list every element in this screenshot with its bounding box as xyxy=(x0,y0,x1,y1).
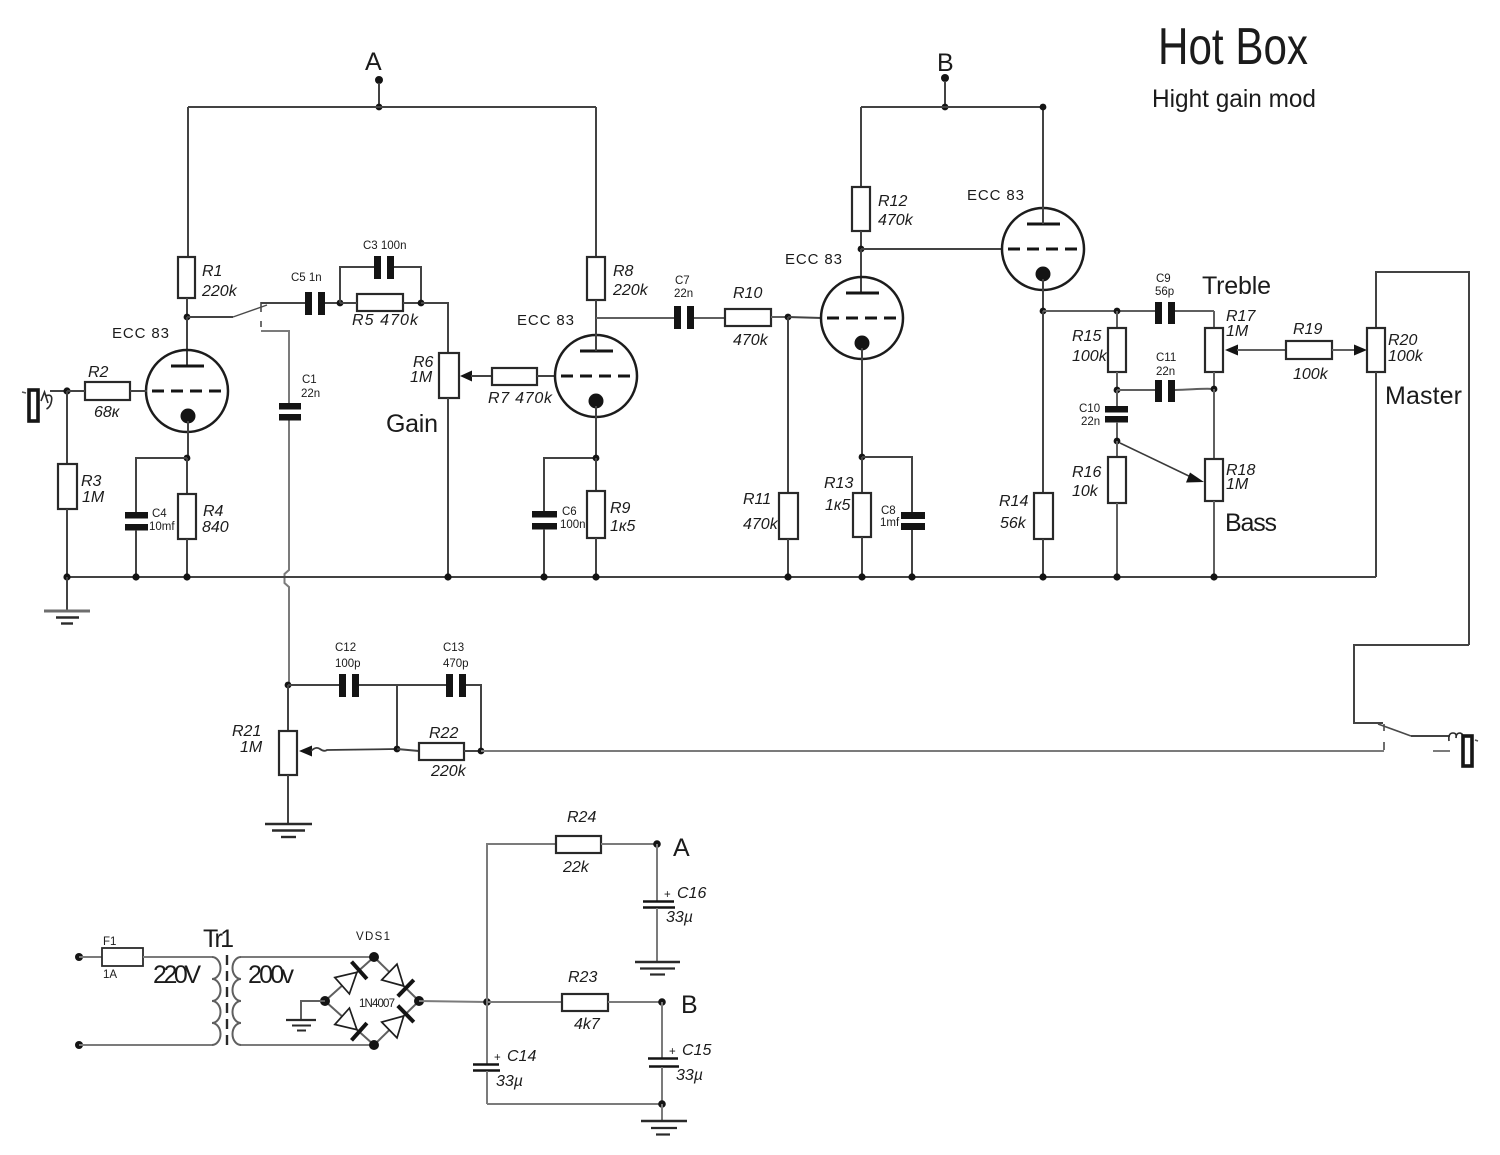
output switch contacts xyxy=(1383,724,1385,731)
switch S1 blade xyxy=(233,305,267,317)
resistor R13 xyxy=(824,457,871,577)
svg-text:F1: F1 xyxy=(103,936,116,948)
ground symbol (C16) xyxy=(635,962,680,975)
node R15 bottom / C11 xyxy=(1114,387,1121,394)
svg-text:220k: 220k xyxy=(612,282,649,299)
svg-text:100k: 100k xyxy=(1388,348,1424,365)
node supply ground xyxy=(658,1100,666,1108)
svg-text:R20: R20 xyxy=(1388,332,1417,349)
resistor R12 xyxy=(852,107,914,249)
svg-text:C8: C8 xyxy=(881,505,896,517)
capacitor C9 xyxy=(1155,273,1214,324)
svg-text:22n: 22n xyxy=(1081,416,1100,428)
output switch blade xyxy=(1378,724,1411,736)
svg-text:1M: 1M xyxy=(1226,476,1249,493)
svg-text:200v: 200v xyxy=(248,961,295,989)
svg-text:R5 470k: R5 470k xyxy=(352,312,419,329)
resistor R15 xyxy=(1072,311,1126,390)
node tube4 cathode xyxy=(1040,308,1047,315)
svg-text:68к: 68к xyxy=(94,404,121,421)
potentiometer R21 xyxy=(232,685,297,824)
svg-text:R19: R19 xyxy=(1293,321,1322,338)
svg-text:22n: 22n xyxy=(1156,366,1175,378)
svg-text:100p: 100p xyxy=(335,658,361,670)
wire lower contact to C1 xyxy=(261,331,289,403)
svg-text:C12: C12 xyxy=(335,642,356,654)
wire R12 to tube3 plate xyxy=(860,249,862,293)
svg-text:10k: 10k xyxy=(1072,483,1099,500)
svg-text:C14: C14 xyxy=(507,1048,536,1065)
svg-text:A: A xyxy=(365,48,382,76)
capacitor C14 xyxy=(473,1002,536,1104)
transformer core xyxy=(226,955,228,1047)
wire to gain pot xyxy=(421,303,448,353)
svg-text:C13: C13 xyxy=(443,642,464,654)
capacitor C3 xyxy=(340,240,421,303)
svg-text:B: B xyxy=(937,49,954,77)
tube U3 ECC 83 (third stage) xyxy=(785,251,903,457)
node supply raw xyxy=(483,998,491,1006)
svg-text:1A: 1A xyxy=(103,969,117,981)
svg-text:R9: R9 xyxy=(610,500,631,517)
svg-text:C7: C7 xyxy=(675,275,690,287)
diode D3 (L to B) xyxy=(335,1008,367,1040)
transformer Tr1 primary xyxy=(75,957,221,1049)
svg-text:C1: C1 xyxy=(302,374,317,386)
svg-text:Hot Box: Hot Box xyxy=(1158,18,1308,76)
svg-text:R1: R1 xyxy=(202,263,222,280)
resistor R11 xyxy=(743,317,798,577)
svg-text:C16: C16 xyxy=(677,885,706,902)
resistor R19 with wiper arrows xyxy=(1225,321,1367,383)
svg-text:10mf: 10mf xyxy=(149,521,175,533)
svg-text:1к5: 1к5 xyxy=(610,518,635,535)
ground symbol (bridge) xyxy=(286,1001,325,1031)
resistor R23 xyxy=(487,969,662,1033)
svg-text:1M: 1M xyxy=(410,369,433,386)
svg-text:56k: 56k xyxy=(1000,515,1027,532)
svg-text:33µ: 33µ xyxy=(676,1067,703,1084)
svg-text:R13: R13 xyxy=(824,475,853,492)
diode D2 (T to R) xyxy=(382,964,414,996)
node B (supply) xyxy=(658,991,697,1019)
node B (top) xyxy=(937,49,954,110)
svg-text:1mf: 1mf xyxy=(880,517,900,529)
wire junction to tube1 plate xyxy=(186,317,188,366)
svg-text:R11: R11 xyxy=(743,491,771,508)
wire C1 down with hop over bus xyxy=(285,421,290,686)
wire blade to jack tip xyxy=(1411,735,1450,737)
resistor R22 xyxy=(397,725,481,780)
node input xyxy=(63,387,70,394)
svg-text:22k: 22k xyxy=(562,859,590,876)
tube U2 ECC 83 (second stage) xyxy=(517,312,637,458)
svg-text:1M: 1M xyxy=(1226,323,1249,340)
svg-text:R15: R15 xyxy=(1072,328,1101,345)
svg-text:C5 1n: C5 1n xyxy=(291,272,322,284)
node R5/C3 right xyxy=(418,300,425,307)
resistor R9 xyxy=(587,458,635,577)
capacitor C5 xyxy=(261,272,340,315)
capacitor C6 xyxy=(532,458,596,577)
svg-text:R22: R22 xyxy=(429,725,458,742)
svg-text:Gain: Gain xyxy=(386,410,438,438)
node wiper/C12 tap xyxy=(394,746,401,753)
svg-text:220k: 220k xyxy=(430,763,467,780)
bus junction dots xyxy=(63,573,1217,580)
capacitor C7 xyxy=(596,275,725,329)
wire B+ to tube4 plate xyxy=(1042,107,1044,224)
wire A supply horizontal xyxy=(188,106,596,108)
wire C14 bottom to ground node xyxy=(487,1103,662,1105)
svg-text:R7 470k: R7 470k xyxy=(488,390,553,407)
svg-text:R2: R2 xyxy=(88,364,109,381)
R18 wiper arrow wire xyxy=(1120,443,1204,483)
ground symbol (supply) xyxy=(641,1104,687,1135)
node tube4 plate supply xyxy=(1040,104,1047,111)
svg-text:1M: 1M xyxy=(240,739,263,756)
resistor R24 xyxy=(556,809,657,876)
svg-text:R10: R10 xyxy=(733,285,762,302)
svg-text:+: + xyxy=(494,1052,501,1064)
capacitor C15 xyxy=(648,1002,711,1104)
node R10/grid3 xyxy=(785,314,792,321)
svg-text:220V: 220V xyxy=(153,961,201,989)
node C5/R5/C3 xyxy=(337,300,344,307)
ground symbol (main bus) xyxy=(44,577,90,624)
switch S1 upper contact xyxy=(260,302,262,312)
wire C12/C13 tap down xyxy=(396,685,398,749)
node C12 left xyxy=(285,682,292,689)
svg-text:22n: 22n xyxy=(301,388,320,400)
svg-text:R24: R24 xyxy=(567,809,596,826)
node tube3 cathode xyxy=(859,454,866,461)
input jack J1 xyxy=(22,390,67,421)
R6 wiper arrow xyxy=(460,371,472,382)
wire bridge to supply node xyxy=(419,1001,487,1002)
svg-text:ECC 83: ECC 83 xyxy=(967,187,1024,204)
capacitor C16 xyxy=(643,844,706,962)
svg-text:C6: C6 xyxy=(562,506,577,518)
tube U4 ECC 83 (cathode follower) xyxy=(967,187,1084,311)
switch S1 pole wire xyxy=(187,316,233,318)
wire B supply horizontal xyxy=(861,106,1043,108)
resistor R1 xyxy=(178,257,238,317)
svg-text:1N4007: 1N4007 xyxy=(359,998,395,1010)
svg-text:C4: C4 xyxy=(152,508,167,520)
potentiometer R20 (Master) xyxy=(1367,272,1469,645)
svg-text:4k7: 4k7 xyxy=(574,1016,601,1033)
svg-text:Treble: Treble xyxy=(1202,272,1271,300)
node C10 bottom xyxy=(1114,438,1121,445)
switch S1 lower contact xyxy=(260,321,262,327)
potentiometer R6 (Gain) xyxy=(410,353,459,577)
R21 wiper arrow and wire xyxy=(299,746,397,757)
resistor R3 xyxy=(58,391,105,577)
wire A down to R1 xyxy=(187,107,189,257)
svg-text:Master: Master xyxy=(1385,382,1462,410)
svg-text:33µ: 33µ xyxy=(496,1073,523,1090)
svg-text:840: 840 xyxy=(202,519,229,536)
svg-text:470k: 470k xyxy=(743,516,779,533)
capacitor C13 xyxy=(397,642,481,751)
svg-text:R23: R23 xyxy=(568,969,597,986)
svg-text:470k: 470k xyxy=(878,212,914,229)
svg-text:R12: R12 xyxy=(878,193,907,210)
node tube1 cathode xyxy=(184,455,191,462)
node R15 top xyxy=(1114,308,1121,315)
svg-text:100k: 100k xyxy=(1293,366,1329,383)
svg-text:ECC 83: ECC 83 xyxy=(112,325,169,342)
capacitor C1 xyxy=(279,374,320,421)
potentiometer R17 (Treble) xyxy=(1205,308,1256,390)
output jack J2 xyxy=(1433,733,1478,766)
svg-text:+: + xyxy=(669,1046,676,1058)
diode D1 (L to T) xyxy=(335,962,367,994)
capacitor C12 xyxy=(288,642,397,697)
fuse F1 xyxy=(75,936,212,981)
resistor R2 xyxy=(67,364,147,421)
node R1/plate junction xyxy=(184,314,191,321)
bridge rectifier VDS1 xyxy=(320,931,424,1050)
svg-text:B: B xyxy=(681,991,698,1019)
wire up to R24 xyxy=(487,844,556,1002)
feedback wire to output jack xyxy=(481,750,1384,752)
title xyxy=(1152,18,1316,113)
svg-text:Bass: Bass xyxy=(1225,509,1277,537)
svg-text:33µ: 33µ xyxy=(666,909,693,926)
svg-text:1к5: 1к5 xyxy=(825,497,850,514)
svg-text:56p: 56p xyxy=(1155,286,1174,298)
wire tube4 cathode to tone stack xyxy=(1043,310,1155,312)
resistor R5 xyxy=(340,294,421,329)
resistor R14 xyxy=(999,311,1053,577)
svg-text:ECC 83: ECC 83 xyxy=(517,312,574,329)
svg-text:VDS1: VDS1 xyxy=(356,931,390,943)
svg-text:R14: R14 xyxy=(999,493,1028,510)
resistor R16 xyxy=(1072,441,1126,577)
node tube2 cathode xyxy=(593,455,600,462)
node A (supply) xyxy=(653,834,690,862)
node R22 right xyxy=(478,748,485,755)
svg-text:C15: C15 xyxy=(682,1042,711,1059)
capacitor C10 xyxy=(1079,390,1128,441)
svg-text:22n: 22n xyxy=(674,288,693,300)
wire grid tube3 xyxy=(788,317,822,318)
svg-text:R4: R4 xyxy=(203,503,224,520)
transformer Tr1 secondary xyxy=(233,957,375,1045)
resistor R10 xyxy=(725,285,788,349)
ground symbol (R21) xyxy=(265,824,312,837)
output wire from Master to jack switch xyxy=(1354,645,1469,723)
svg-text:R21: R21 xyxy=(232,723,261,740)
resistor R7 xyxy=(471,368,556,407)
svg-text:R8: R8 xyxy=(613,263,634,280)
svg-text:C9: C9 xyxy=(1156,273,1171,285)
resistor R8 xyxy=(587,107,649,351)
node R12 bottom xyxy=(858,246,865,253)
svg-text:C3 100n: C3 100n xyxy=(363,240,406,252)
svg-text:220k: 220k xyxy=(201,283,238,300)
svg-text:R3: R3 xyxy=(81,473,102,490)
svg-text:100k: 100k xyxy=(1072,348,1108,365)
svg-text:A: A xyxy=(673,834,690,862)
node A (top) xyxy=(365,48,383,110)
potentiometer R18 (Bass) xyxy=(1205,389,1255,577)
svg-text:100n: 100n xyxy=(560,519,586,531)
resistor R4 xyxy=(178,458,229,577)
svg-text:470p: 470p xyxy=(443,658,469,670)
ground bus xyxy=(67,576,1376,578)
tube U1 ECC 83 (input triode) xyxy=(112,325,228,458)
svg-text:C10: C10 xyxy=(1079,403,1100,415)
svg-text:ECC 83: ECC 83 xyxy=(785,251,842,268)
svg-text:C11: C11 xyxy=(1156,352,1176,364)
svg-text:470k: 470k xyxy=(733,332,769,349)
wire R12 to tube4 grid xyxy=(861,248,1003,250)
svg-text:Hight gain mod: Hight gain mod xyxy=(1152,85,1316,113)
svg-text:R16: R16 xyxy=(1072,464,1101,481)
capacitor C11 xyxy=(1117,352,1214,402)
svg-text:1M: 1M xyxy=(82,489,105,506)
capacitor C4 xyxy=(125,458,187,577)
svg-text:+: + xyxy=(664,889,671,901)
diode D4 (B to R) xyxy=(382,1006,414,1038)
capacitor C8 xyxy=(862,457,925,577)
svg-text:Tr1: Tr1 xyxy=(203,925,234,953)
node R17 bottom / C11 xyxy=(1211,386,1218,393)
